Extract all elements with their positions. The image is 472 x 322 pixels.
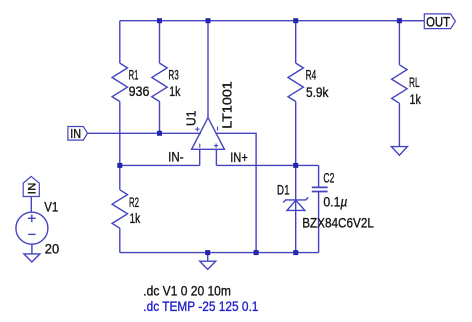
svg-text:IN+: IN+ xyxy=(230,149,248,165)
svg-text:20: 20 xyxy=(45,241,60,257)
svg-text:C2: C2 xyxy=(323,169,334,185)
wire R3 column xyxy=(159,21,161,134)
wire IN- xyxy=(120,164,200,166)
wire R1 left column xyxy=(119,21,121,253)
ground below RL xyxy=(391,147,407,156)
wire C2 column xyxy=(318,165,320,252)
junction dot D1 rail xyxy=(293,250,298,255)
wire RL column xyxy=(398,21,400,147)
svg-text:.dc V1 0 20 10m: .dc V1 0 20 10m xyxy=(143,283,231,299)
wire op-amp V- to corner xyxy=(215,133,256,252)
junction dot ground rail xyxy=(205,250,210,255)
resistor R3 xyxy=(152,63,167,101)
svg-text:V1: V1 xyxy=(44,198,58,214)
junction dot op-amp out top xyxy=(206,18,211,23)
op-amp non-inverting input plus mark xyxy=(214,144,218,148)
svg-text:1k: 1k xyxy=(169,83,181,99)
svg-text:IN: IN xyxy=(27,183,39,195)
svg-text:U1: U1 xyxy=(183,111,198,126)
op-amp V- minus mark (rotated) xyxy=(217,127,219,131)
wire bottom rail xyxy=(120,252,319,254)
junction dot IN+ at R4 xyxy=(293,163,298,168)
port flag IN xyxy=(68,127,88,142)
net flag IN on V1 xyxy=(23,176,39,196)
svg-text:IN: IN xyxy=(70,127,81,141)
junction dot R3 bottom xyxy=(157,131,162,136)
svg-text:R3: R3 xyxy=(168,67,179,83)
wire OUT stub xyxy=(399,20,424,22)
svg-text:R2: R2 xyxy=(129,194,139,210)
junction dot IN- left xyxy=(117,163,122,168)
svg-text:D1: D1 xyxy=(277,181,290,197)
ground on bottom rail xyxy=(200,253,216,270)
svg-text:R4: R4 xyxy=(306,67,317,83)
resistor RL xyxy=(392,65,407,103)
svg-text:1k: 1k xyxy=(130,210,141,226)
voltage source V1 xyxy=(16,197,48,254)
junction dot R3 top xyxy=(157,18,162,23)
svg-text:936: 936 xyxy=(129,83,150,99)
op-amp U1 xyxy=(192,118,225,166)
capacitor C2 xyxy=(312,187,328,191)
op-amp V+ plus mark xyxy=(195,127,199,131)
op-amp inverting input minus mark (rotated) xyxy=(199,144,201,148)
wire R4 column xyxy=(295,21,297,253)
port flag OUT xyxy=(424,13,455,29)
resistor R2 xyxy=(112,190,127,228)
svg-text:5.9k: 5.9k xyxy=(306,84,329,100)
junction dot RL top xyxy=(397,18,402,23)
svg-text:BZX84C6V2L: BZX84C6V2L xyxy=(302,215,374,231)
wire IN to op-amp V+ xyxy=(87,132,201,134)
svg-text:1k: 1k xyxy=(410,91,422,107)
svg-text:LT1001: LT1001 xyxy=(220,81,235,129)
wire top rail xyxy=(120,20,425,22)
svg-text:0.1µ: 0.1µ xyxy=(323,194,347,210)
svg-text:OUT: OUT xyxy=(426,13,450,29)
junction dot R4 top xyxy=(293,18,298,23)
diode D1 (zener) xyxy=(283,197,308,210)
resistor R4 xyxy=(288,63,303,101)
svg-text:IN-: IN- xyxy=(168,149,184,165)
resistor R1 xyxy=(112,63,127,101)
junction dot V- rail xyxy=(254,250,259,255)
wire op-amp output column xyxy=(207,21,209,118)
svg-text:.dc TEMP -25 125 0.1: .dc TEMP -25 125 0.1 xyxy=(143,298,258,314)
ground below V1 xyxy=(24,254,40,262)
svg-text:R1: R1 xyxy=(129,67,139,83)
svg-text:RL: RL xyxy=(409,74,420,90)
wire IN+ xyxy=(216,164,318,166)
